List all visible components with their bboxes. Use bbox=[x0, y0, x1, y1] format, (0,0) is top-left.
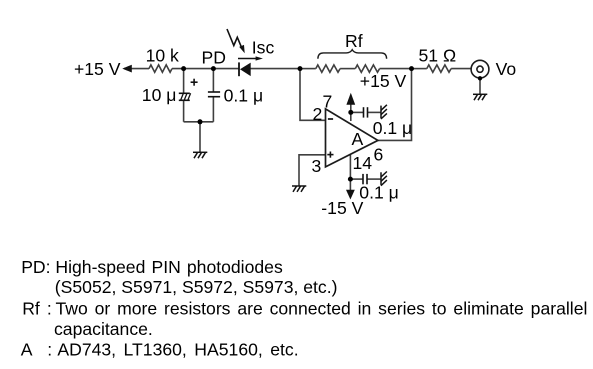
wire: photodiode anode to feedback node bbox=[251, 68, 301, 70]
svg-text:6: 6 bbox=[374, 145, 384, 165]
capacitor 10u: top plate bbox=[179, 92, 190, 94]
svg-text:Isc: Isc bbox=[252, 38, 275, 58]
resistor R 10k zigzag bbox=[149, 65, 172, 72]
svg-text:A: A bbox=[352, 129, 364, 149]
svg-text:10 μ: 10 μ bbox=[142, 85, 177, 105]
arrow: V- supply pointing down bbox=[346, 190, 355, 200]
wire: top bypass cap right lead bbox=[368, 111, 382, 113]
wire: feedback node down to pin 2 bbox=[300, 69, 326, 121]
svg-text:PD: PD bbox=[202, 47, 226, 67]
light arrow into photodiode bbox=[227, 29, 242, 49]
wire: bottom rail to ground bbox=[199, 122, 201, 153]
wire: between Rf resistors bbox=[340, 68, 355, 70]
wire: bottom bypass cap right lead bbox=[367, 178, 381, 180]
node: coax shield tap bbox=[478, 76, 482, 80]
wire: Rf to output node bbox=[380, 68, 412, 70]
op-amp plus sign bbox=[327, 152, 333, 158]
arrow: +15V pointing left bbox=[122, 65, 132, 73]
wire: bottom rail joining caps bbox=[184, 121, 214, 123]
svg-text:A: A bbox=[21, 340, 33, 360]
svg-text:Rf: Rf bbox=[345, 31, 363, 51]
ground at pin 3 bbox=[292, 186, 306, 192]
node: bottom rail ground tap bbox=[198, 119, 203, 124]
wire: branch down to 0.1u cap bbox=[212, 69, 214, 92]
op-amp A triangle bbox=[326, 109, 378, 167]
capacitor 10u: bottom plate bbox=[179, 99, 190, 101]
svg-text:(S5052, S5971, S5972, S5973, e: (S5052, S5971, S5972, S5973, etc.) bbox=[55, 277, 338, 297]
svg-text:+15 V: +15 V bbox=[360, 71, 407, 91]
wire: 0.1u cap to bottom rail bbox=[212, 97, 214, 122]
svg-text:PD:: PD: bbox=[21, 257, 50, 277]
wire: 51 ohm to output connector bbox=[451, 68, 471, 70]
svg-text:10 k: 10 k bbox=[146, 46, 179, 66]
wire: +15V feed to 10k bbox=[124, 68, 149, 70]
wire: bottom bypass cap left lead bbox=[350, 178, 363, 180]
svg-text:+15 V: +15 V bbox=[74, 59, 121, 79]
plus sign of 10u capacitor bbox=[191, 79, 198, 86]
svg-text:Two or more resistors are conn: Two or more resistors are connected in s… bbox=[56, 299, 588, 319]
svg-text::: : bbox=[47, 299, 52, 319]
node: V- bypass junction bbox=[348, 177, 353, 182]
ground under decoupling caps bbox=[193, 152, 207, 158]
node: feedback tap bbox=[298, 66, 303, 71]
wire: 10u cap to bottom rail bbox=[183, 100, 185, 122]
wire: output node to 51 ohm bbox=[412, 68, 427, 70]
svg-text:2: 2 bbox=[313, 104, 323, 124]
svg-text:0.1 μ: 0.1 μ bbox=[373, 118, 412, 138]
wire: feedback node to Rf bbox=[300, 68, 316, 70]
svg-text:0.1 μ: 0.1 μ bbox=[359, 183, 398, 203]
wire: coax connector to ground bbox=[479, 78, 481, 94]
ground at top bypass cap (rotated) bbox=[381, 105, 387, 119]
wire: branch down to 10u cap bbox=[183, 69, 185, 94]
capacitor 0.1u top bypass: plates bbox=[364, 107, 368, 117]
node: left cap junction bbox=[181, 66, 186, 71]
brace over Rf bbox=[318, 50, 387, 59]
svg-text::: : bbox=[47, 340, 52, 360]
ground at bottom bypass cap (rotated) bbox=[381, 172, 387, 186]
svg-text:AD743, LT1360, HA5160, etc.: AD743, LT1360, HA5160, etc. bbox=[57, 340, 298, 360]
photodiode PD: cathode bar bbox=[238, 62, 240, 76]
svg-text:51 Ω: 51 Ω bbox=[419, 46, 457, 66]
capacitor 0.1u (left): plates bbox=[208, 92, 220, 97]
svg-text:-15 V: -15 V bbox=[321, 198, 363, 218]
svg-text:7: 7 bbox=[323, 92, 333, 112]
wire: pin 3 to ground bbox=[299, 155, 326, 186]
resistor Rf first zigzag bbox=[316, 65, 340, 72]
wire: 10k to photodiode bbox=[172, 68, 239, 70]
Isc current arrow bbox=[238, 58, 257, 60]
svg-text:Vo: Vo bbox=[496, 59, 517, 79]
capacitor 0.1u bottom bypass: plates bbox=[363, 174, 367, 184]
svg-text:14: 14 bbox=[353, 153, 373, 173]
arrow: V+ supply pointing up bbox=[346, 93, 355, 105]
svg-text:capacitance.: capacitance. bbox=[54, 319, 153, 339]
op-amp minus sign bbox=[328, 118, 333, 120]
wire: top bypass cap left lead bbox=[351, 111, 364, 113]
svg-text:0.1 μ: 0.1 μ bbox=[224, 85, 263, 105]
node: right cap junction bbox=[211, 66, 216, 71]
svg-text:High-speed PIN photodiodes: High-speed PIN photodiodes bbox=[55, 257, 283, 277]
photodiode PD: triangle bbox=[240, 63, 251, 77]
wire: V+ arrow to op-amp top edge bbox=[350, 104, 352, 121]
node: output tap bbox=[409, 66, 414, 71]
ground at output connector bbox=[473, 94, 487, 100]
resistor Rf second zigzag bbox=[355, 65, 379, 72]
svg-text:3: 3 bbox=[312, 156, 322, 176]
wire: op-amp pin 4 down to V- arrow bbox=[349, 155, 351, 191]
svg-text:Rf: Rf bbox=[22, 299, 40, 319]
coax connector inner ring bbox=[477, 66, 483, 72]
node: V+ bypass junction bbox=[348, 110, 353, 115]
resistor 51 ohm zigzag bbox=[427, 65, 451, 72]
coax connector outer ring bbox=[471, 60, 489, 78]
capacitor 10u: polarity hatching bbox=[181, 93, 191, 100]
wire: output node down and left to op-amp output bbox=[378, 69, 412, 141]
